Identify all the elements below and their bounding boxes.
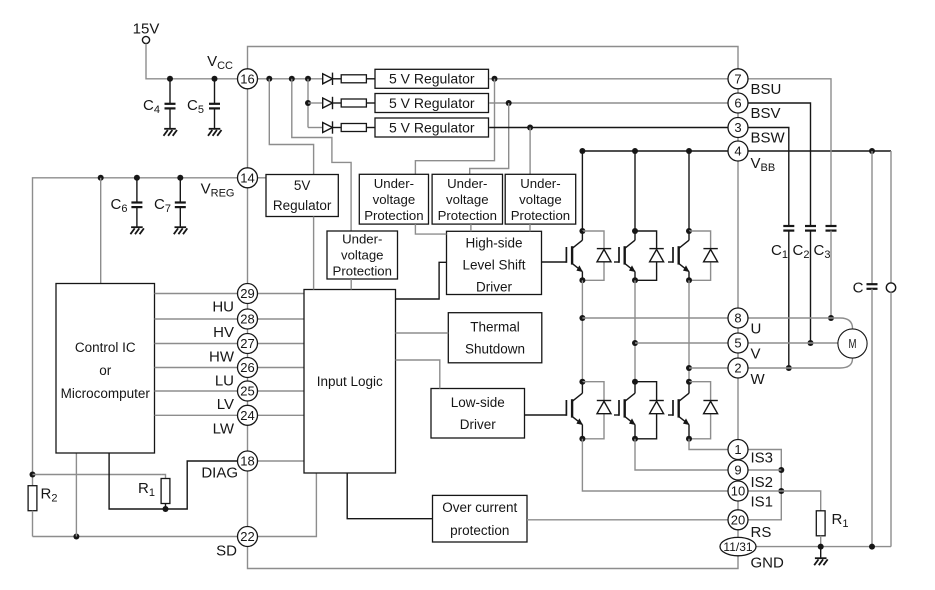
wire C to GND rail <box>871 289 873 547</box>
wire phase U node <box>581 280 583 381</box>
wire DIAG net pin18-R1-Control IC <box>109 453 237 509</box>
ground (C4) <box>164 129 178 136</box>
junction VCC/5V-regulator feed <box>266 76 272 82</box>
wire IS3/IS2/IS1 tie to RS <box>749 450 782 520</box>
wire Control IC to pin 26 (LU) <box>155 367 238 369</box>
junction Q4 emitter <box>579 436 585 442</box>
pin 14 (VREG) <box>238 168 258 188</box>
diode (high side V) <box>649 249 663 262</box>
transistor Q1 (high side U) <box>566 240 583 272</box>
node 15V label <box>133 21 160 38</box>
wire C4 bottom lead <box>169 109 171 129</box>
wire regulator1 to UVP1 <box>415 79 494 175</box>
wire regulator3 to UVP3 <box>529 128 531 175</box>
node W <box>686 365 692 371</box>
wire free-wheel diode loop (high side W) <box>689 231 711 280</box>
label GND <box>751 555 785 572</box>
svg-text:GND: GND <box>751 555 785 572</box>
wire C6 top lead <box>136 178 138 202</box>
block: Input Logic <box>304 290 396 474</box>
resistor R1 (sense) <box>816 511 825 536</box>
label BSW <box>751 130 786 147</box>
svg-text:6: 6 <box>734 96 741 111</box>
wire pin 29 to Input Logic (HU) <box>258 293 305 295</box>
wire Low-side Driver to Q4 gate <box>525 414 567 416</box>
wire VCC to 5V Regulator block <box>269 79 313 175</box>
svg-text:voltage: voltage <box>341 248 384 263</box>
junction Q6 collector <box>686 379 692 385</box>
pin 8 (U) <box>728 308 748 328</box>
junction VCC/UVP feed <box>289 76 295 82</box>
svg-text:27: 27 <box>240 336 254 351</box>
svg-text:U: U <box>751 321 762 338</box>
label label C4 <box>143 97 160 116</box>
wire C6 bottom lead <box>136 208 138 228</box>
wire resistor to 5 V Regulator 1 <box>366 78 375 80</box>
svg-text:BSW: BSW <box>751 130 786 147</box>
wire Q2 collector/emitter stubs <box>634 231 636 280</box>
wire pin 24 to Input Logic (LW) <box>258 414 305 416</box>
junction Q6 emitter <box>686 436 692 442</box>
svg-text:11/31: 11/31 <box>723 540 752 554</box>
svg-text:SD: SD <box>216 543 237 560</box>
svg-text:24: 24 <box>240 408 254 423</box>
label label C3 <box>814 242 831 261</box>
capacitor C5 <box>209 104 220 109</box>
label label R1 right <box>832 511 849 530</box>
svg-text:Control IC: Control IC <box>75 340 136 355</box>
svg-text:LU: LU <box>215 373 234 390</box>
block: Under-voltage Protection 4 <box>327 231 398 279</box>
terminal 15V <box>142 36 149 43</box>
pin 20 (RS) <box>728 510 748 530</box>
transistor Q4 (low side U) <box>566 393 583 425</box>
wire pin14 to 5V Regulator <box>258 177 266 179</box>
wire pin 28 to Input Logic (HV) <box>258 318 305 320</box>
wire Q5 emitter to pin (IS2) <box>635 439 728 470</box>
junction Q1 emitter <box>579 277 585 283</box>
svg-text:4: 4 <box>734 144 741 159</box>
junction Q3 collector <box>686 228 692 234</box>
junction Q5 emitter <box>632 436 638 442</box>
junction VREG/C6 <box>134 175 140 181</box>
wire VBB to capacitor C <box>871 151 873 284</box>
svg-text:Under-: Under- <box>374 176 414 191</box>
svg-text:R2: R2 <box>41 486 58 505</box>
pin 2 (W) <box>728 358 748 378</box>
svg-text:HW: HW <box>209 349 235 366</box>
pin 11/31 (GND) <box>720 537 756 555</box>
wire Control IC to SD net <box>75 453 77 537</box>
resistor (row 3) <box>341 124 366 132</box>
label label VCC <box>207 53 233 72</box>
svg-text:R1: R1 <box>138 480 155 499</box>
junction regulator1 output <box>492 76 498 82</box>
pin 26 (LU) <box>238 358 258 378</box>
svg-text:or: or <box>99 363 112 378</box>
junction VREG/C7 <box>177 175 183 181</box>
junction Q2 collector <box>632 228 638 234</box>
capacitor C1 <box>783 226 794 231</box>
svg-text:IS3: IS3 <box>751 450 774 467</box>
wire C7 top lead <box>179 178 181 202</box>
svg-text:18: 18 <box>240 454 254 469</box>
wire Q5 gate stub <box>614 414 619 416</box>
wire SD net to pin 22 <box>33 536 238 538</box>
pin 9 (IS2) <box>728 460 748 480</box>
wire C2 to node V <box>810 231 812 343</box>
transistor Q3 (high side W) <box>673 240 690 272</box>
svg-text:V: V <box>751 346 761 363</box>
wire VBB to supply terminal <box>890 151 892 283</box>
ground (C6) <box>130 227 144 234</box>
label HW <box>209 349 235 366</box>
wire Control IC to pin 28 (HV) <box>155 318 238 320</box>
wire Q4 emitter to pin (IS1) <box>582 439 727 491</box>
wire Over current protection to pin 20 (RS) <box>527 519 728 521</box>
wire R2 bottom to SD rail <box>32 511 34 537</box>
label label R2 <box>41 486 58 505</box>
wire Q6 gate stub <box>668 414 673 416</box>
wire Q2 gate stub <box>614 261 619 263</box>
wire Control IC to pin 25 (LV) <box>155 390 238 392</box>
wire resistor to 5 V Regulator 3 <box>366 127 375 129</box>
diode (high side W) <box>703 249 717 262</box>
wire phase W node <box>688 280 690 381</box>
svg-text:voltage: voltage <box>519 192 562 207</box>
wire Q1 collector/emitter stubs <box>581 231 583 280</box>
transistor Q5 (low side V) <box>619 393 636 425</box>
junction C2/V <box>808 340 814 346</box>
svg-text:IS2: IS2 <box>751 474 774 491</box>
junction VBB/Q1 <box>579 148 585 154</box>
wire GND stub <box>820 547 822 558</box>
label LW <box>213 420 235 437</box>
wire VREG to Control IC <box>100 178 102 284</box>
svg-text:5 V Regulator: 5 V Regulator <box>389 119 475 135</box>
svg-text:IS1: IS1 <box>751 494 774 511</box>
label IS3 <box>751 450 774 467</box>
wire VREG rail and left branch down to R2 <box>33 178 238 486</box>
svg-text:Level Shift: Level Shift <box>462 257 525 272</box>
svg-text:C6: C6 <box>111 196 128 215</box>
diode (low side W) <box>703 401 717 414</box>
label HU <box>212 299 234 316</box>
wire C4 top lead <box>169 79 171 104</box>
terminal supply (battery +) <box>886 283 895 292</box>
junction regulator3 output <box>527 125 533 131</box>
block: Over current protection <box>433 495 528 542</box>
wire R2 top to R1 top <box>33 474 162 476</box>
svg-text:5 V Regulator: 5 V Regulator <box>389 71 475 87</box>
wire VCC to Under-voltage Protection (logic) <box>292 79 351 231</box>
wire 5 V Regulator 1 to pin 7 (BSU) <box>489 78 727 80</box>
svg-text:2: 2 <box>734 361 741 376</box>
label DIAG <box>201 465 238 482</box>
junction SD/control <box>73 534 79 540</box>
label IS2 <box>751 474 774 491</box>
wire V to motor <box>749 342 838 344</box>
svg-text:29: 29 <box>240 286 254 301</box>
wire resistor to 5 V Regulator 2 <box>366 102 375 104</box>
label C <box>853 280 864 297</box>
svg-text:Driver: Driver <box>460 417 497 432</box>
wire GND rail <box>756 546 892 548</box>
svg-text:Shutdown: Shutdown <box>465 341 525 356</box>
label label R1 left <box>138 480 155 499</box>
junction C4/VCC <box>167 76 173 82</box>
wire C7 bottom lead <box>179 208 181 228</box>
block: 5 V Regulator 2 <box>375 94 489 113</box>
svg-text:Input Logic: Input Logic <box>317 374 383 389</box>
wire regulator2 to UVP2 <box>470 103 509 174</box>
pin 3 (BSW) <box>728 118 748 138</box>
svg-text:Under-: Under- <box>447 176 487 191</box>
wire to diode D2 <box>308 102 323 104</box>
wire UVP2 to High-side Driver <box>470 224 472 231</box>
wire W to motor <box>749 359 853 369</box>
motor M <box>838 329 867 358</box>
diode (high side U) <box>597 249 611 262</box>
capacitor C4 <box>165 104 176 109</box>
label V <box>751 346 761 363</box>
pin 5 (V) <box>728 333 748 353</box>
junction DIAG/R1 <box>163 506 169 512</box>
capacitor C2 <box>805 226 816 231</box>
svg-text:Protection: Protection <box>438 208 497 223</box>
svg-text:W: W <box>751 371 766 388</box>
svg-text:Protection: Protection <box>364 208 423 223</box>
svg-text:BSV: BSV <box>751 105 781 122</box>
svg-text:5 V Regulator: 5 V Regulator <box>389 95 475 111</box>
label LV <box>217 396 234 413</box>
wire UVP1 to High-side Driver <box>415 224 446 234</box>
svg-text:VBB: VBB <box>751 155 776 174</box>
svg-text:Under-: Under- <box>520 176 560 191</box>
junction diode row 2 <box>305 100 311 106</box>
block: 5V Regulator <box>266 175 338 217</box>
wire C5 bottom lead <box>214 109 216 129</box>
wire VBB to Q3 collector <box>688 151 690 231</box>
svg-text:7: 7 <box>734 71 741 86</box>
svg-text:BSU: BSU <box>751 81 782 98</box>
wire Input Logic to Thermal Shutdown <box>396 332 449 334</box>
wire VBB rail (left) to Q1 collector <box>582 151 727 231</box>
svg-text:15V: 15V <box>133 21 160 38</box>
label label C7 <box>154 196 171 215</box>
svg-text:R1: R1 <box>832 511 849 530</box>
wire pin 26 to Input Logic (LU) <box>258 367 305 369</box>
svg-text:RS: RS <box>751 524 772 541</box>
wire Q6 emitter to pin (IS3) <box>689 439 728 450</box>
wire pin 9 (IS2) <box>749 469 782 471</box>
svg-text:Under-: Under- <box>342 232 382 247</box>
wire Input Logic to High-side Driver <box>396 262 447 299</box>
svg-text:voltage: voltage <box>373 192 416 207</box>
pin 25 (LV) <box>238 381 258 401</box>
diode (low side V) <box>649 401 663 414</box>
pin 29 (HU) <box>238 284 258 304</box>
svg-text:HV: HV <box>213 324 234 341</box>
wire VCC row to diode D1 <box>258 78 323 80</box>
wire UVP3 to High-side Driver <box>529 224 531 231</box>
block: Under-voltage Protection 2 <box>432 174 502 224</box>
pin 28 (HV) <box>238 309 258 329</box>
label W <box>751 371 766 388</box>
svg-text:16: 16 <box>240 71 254 86</box>
wire 5 V Regulator 3 to pin 3 (BSW) <box>489 127 727 129</box>
block: Under-voltage Protection 3 <box>505 174 576 224</box>
resistor (row 1) <box>341 75 366 83</box>
svg-text:26: 26 <box>240 360 254 375</box>
svg-text:C: C <box>853 280 864 297</box>
wire VBB rail (right) <box>749 150 892 152</box>
pin 22 (SD) <box>238 527 258 547</box>
label LU <box>215 373 234 390</box>
junction Q5 collector <box>632 379 638 385</box>
wire free-wheel diode loop (high side U) <box>582 231 604 280</box>
pin 4 (VBB) <box>728 141 748 161</box>
wire pin 22 (SD) to Input Logic <box>258 473 317 537</box>
wire pin 18 to Input Logic <box>258 460 305 462</box>
block: 5 V Regulator 1 <box>375 69 489 88</box>
block: Control IC or Microcomputer <box>56 284 155 454</box>
wire VCC to diode rows 2-3 <box>307 79 309 128</box>
wire Control IC to pin 24 (LW) <box>155 414 238 416</box>
svg-text:5V: 5V <box>294 178 311 193</box>
transistor Q2 (high side V) <box>619 240 636 272</box>
label BSV <box>751 105 781 122</box>
diode D3 <box>323 121 333 133</box>
svg-text:9: 9 <box>734 463 741 478</box>
block: Thermal Shutdown <box>448 313 542 363</box>
capacitor C7 <box>175 203 186 208</box>
wire R1 top lead <box>161 475 165 479</box>
wire phase V node <box>634 280 636 381</box>
svg-text:3: 3 <box>734 120 741 135</box>
junction VREG/control supply <box>98 175 104 181</box>
junction Q3 emitter <box>686 277 692 283</box>
wire Q3 gate stub <box>668 261 673 263</box>
label label VREG <box>201 181 235 200</box>
wire Control IC to pin 29 (HU) <box>155 293 238 295</box>
wire supply terminal to GND rail <box>890 292 892 546</box>
wire Input Logic to Low-side Driver <box>396 360 440 389</box>
junction C5/VCC <box>212 76 218 82</box>
svg-text:25: 25 <box>240 384 254 399</box>
junction IS1 <box>778 488 784 494</box>
wire phase U to pin <box>582 317 727 319</box>
pin 27 (HW) <box>238 334 258 354</box>
svg-text:Over current: Over current <box>442 500 517 515</box>
wire UVP4 to Input Logic <box>350 279 352 290</box>
diode D1 <box>323 73 333 85</box>
svg-text:1: 1 <box>734 442 741 457</box>
svg-text:8: 8 <box>734 311 741 326</box>
svg-text:M: M <box>849 337 857 351</box>
wire free-wheel diode loop (low side V) <box>635 382 657 439</box>
transistor Q6 (low side W) <box>673 393 690 425</box>
diode (low side U) <box>597 401 611 414</box>
svg-text:LW: LW <box>213 420 235 437</box>
svg-text:C5: C5 <box>187 97 204 116</box>
svg-text:VREG: VREG <box>201 181 235 200</box>
resistor R1 (left) <box>161 479 170 504</box>
label HV <box>213 324 234 341</box>
wire C1 to node W <box>788 231 790 368</box>
junction Q2 emitter <box>632 277 638 283</box>
wire phase W to pin <box>689 367 728 369</box>
ground (C5) <box>208 129 222 136</box>
ground (system) <box>814 558 828 565</box>
svg-text:Regulator: Regulator <box>273 198 332 213</box>
wire 5 V Regulator 2 to pin 6 (BSV) <box>489 102 727 104</box>
pin 24 (LW) <box>238 405 258 425</box>
svg-text:Microcomputer: Microcomputer <box>61 386 151 401</box>
wire phase V to pin <box>635 342 728 344</box>
wire free-wheel diode loop (low side W) <box>689 382 711 439</box>
svg-text:Protection: Protection <box>511 208 570 223</box>
label IS1 <box>751 494 774 511</box>
pin 10 (IS1) <box>728 481 748 501</box>
svg-text:C2: C2 <box>793 242 810 261</box>
pin 7 (BSU) <box>728 69 748 89</box>
svg-text:voltage: voltage <box>446 192 489 207</box>
junction C3/U <box>828 315 834 321</box>
wire pin 25 to Input Logic (LV) <box>258 390 305 392</box>
node V <box>632 340 638 346</box>
label label C2 <box>793 242 810 261</box>
junction C1/W <box>786 365 792 371</box>
svg-text:Protection: Protection <box>333 264 392 279</box>
wire R1 bottom lead <box>165 504 167 510</box>
wire Over current protection to Input Logic <box>347 473 432 519</box>
svg-text:LV: LV <box>217 396 234 413</box>
wire Q5 collector/emitter stubs <box>634 382 636 439</box>
junction regulator2 output <box>506 100 512 106</box>
wire Q6 collector/emitter stubs <box>688 382 690 439</box>
label BSU <box>751 81 782 98</box>
junction VBB/Q3 <box>686 148 692 154</box>
junction VBB/C <box>869 148 875 154</box>
junction Q4 collector <box>579 379 585 385</box>
svg-text:VCC: VCC <box>207 53 233 72</box>
svg-text:C4: C4 <box>143 97 160 116</box>
wire free-wheel diode loop (low side U) <box>582 382 604 439</box>
capacitor C3 <box>826 226 837 231</box>
wire VBB to Q2 collector <box>634 151 636 231</box>
wire 15V to pin 16 (VCC) <box>146 44 238 79</box>
junction C/GND <box>869 544 875 550</box>
resistor (row 2) <box>341 99 366 107</box>
wire Q3 collector/emitter stubs <box>688 231 690 280</box>
junction Q1 collector <box>579 228 585 234</box>
wire Control IC to pin 27 (HW) <box>155 343 238 345</box>
pin 6 (BSV) <box>728 93 748 113</box>
node U <box>579 315 585 321</box>
junction R2/R1 top <box>30 472 36 478</box>
label label C1 <box>771 242 788 261</box>
label label C5 <box>187 97 204 116</box>
label label VBB <box>751 155 776 174</box>
block: High-side Level Shift Driver <box>447 231 542 294</box>
svg-text:HU: HU <box>212 299 234 316</box>
wire D3 to R5 <box>333 127 342 129</box>
wire R1 to GND rail <box>820 536 822 547</box>
ground (C7) <box>174 227 188 234</box>
wire High-side Driver to Q1 gate <box>542 261 567 263</box>
wire D2 to R4 <box>333 102 342 104</box>
